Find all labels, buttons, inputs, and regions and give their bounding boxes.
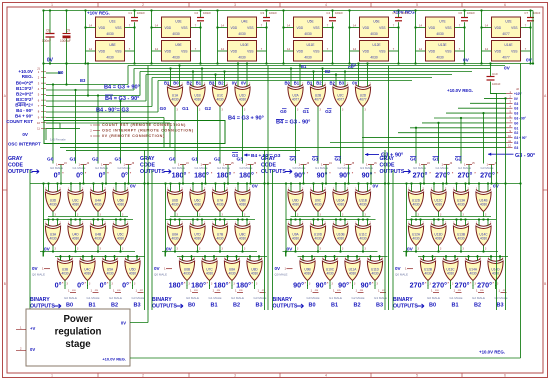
svg-text:0°: 0° bbox=[100, 281, 107, 290]
svg-text:4030: 4030 bbox=[349, 272, 356, 276]
svg-text:10: 10 bbox=[508, 134, 511, 138]
svg-text:14: 14 bbox=[419, 47, 422, 51]
svg-text:*: * bbox=[429, 172, 431, 176]
svg-text:4030: 4030 bbox=[94, 203, 101, 207]
svg-text:3: 3 bbox=[199, 249, 201, 251]
svg-text:4030: 4030 bbox=[370, 32, 378, 36]
svg-text:3: 3 bbox=[365, 110, 367, 112]
svg-text:Q0 MALE: Q0 MALE bbox=[32, 273, 45, 277]
svg-text:3: 3 bbox=[354, 284, 356, 286]
svg-text:VSS: VSS bbox=[379, 26, 385, 30]
svg-text:J5: J5 bbox=[472, 162, 475, 165]
svg-text:1: 1 bbox=[38, 70, 40, 74]
svg-text:5: 5 bbox=[38, 93, 40, 97]
svg-text:+10V REG.: +10V REG. bbox=[393, 10, 416, 15]
svg-text:3: 3 bbox=[222, 110, 224, 112]
svg-text:14: 14 bbox=[353, 23, 356, 27]
svg-text:U12E: U12E bbox=[372, 43, 381, 47]
svg-text:VDD: VDD bbox=[495, 26, 502, 30]
svg-text:U13E: U13E bbox=[438, 43, 447, 47]
svg-text:2: 2 bbox=[490, 189, 492, 191]
svg-text:*: * bbox=[85, 282, 87, 286]
svg-text:VDD: VDD bbox=[231, 50, 238, 54]
svg-text:0°: 0° bbox=[99, 171, 106, 180]
svg-text:G0 MALE: G0 MALE bbox=[186, 296, 199, 300]
svg-text:*: * bbox=[85, 172, 87, 176]
svg-text:3: 3 bbox=[177, 110, 179, 112]
svg-text:G0: G0 bbox=[290, 157, 297, 163]
svg-text:2: 2 bbox=[216, 258, 218, 260]
svg-text:VSS: VSS bbox=[115, 50, 121, 54]
svg-text:2: 2 bbox=[502, 258, 504, 260]
svg-text:1: 1 bbox=[51, 374, 53, 378]
svg-text:G3: G3 bbox=[514, 141, 518, 145]
svg-text:2: 2 bbox=[325, 84, 327, 86]
svg-text:J3: J3 bbox=[186, 162, 189, 165]
svg-text:2: 2 bbox=[468, 189, 470, 191]
svg-text:2: 2 bbox=[227, 84, 229, 86]
svg-text:2: 2 bbox=[249, 84, 251, 86]
svg-text:4030: 4030 bbox=[61, 272, 68, 276]
svg-text:VDD: VDD bbox=[99, 26, 106, 30]
svg-text:U8E: U8E bbox=[109, 43, 116, 47]
svg-text:*: * bbox=[130, 282, 132, 286]
svg-text:3: 3 bbox=[497, 284, 499, 286]
svg-text:B0: B0 bbox=[173, 80, 179, 85]
svg-text:J25: J25 bbox=[217, 290, 221, 292]
svg-text:4030: 4030 bbox=[106, 272, 113, 276]
svg-text:+10.0V REG.: +10.0V REG. bbox=[479, 350, 505, 355]
svg-text:0V: 0V bbox=[351, 63, 356, 68]
svg-text:B0: B0 bbox=[58, 70, 64, 75]
svg-text:OUTPUTS: OUTPUTS bbox=[273, 304, 298, 310]
svg-text:3: 3 bbox=[122, 249, 124, 251]
svg-text:B3: B3 bbox=[133, 303, 140, 309]
svg-text:3: 3 bbox=[100, 249, 102, 251]
svg-text:J24: J24 bbox=[315, 290, 319, 292]
svg-text:U1E: U1E bbox=[109, 20, 116, 24]
svg-text:G1: G1 bbox=[182, 106, 189, 112]
svg-text:4: 4 bbox=[38, 87, 40, 91]
svg-text:3: 3 bbox=[309, 284, 311, 286]
svg-text:*: * bbox=[452, 172, 454, 176]
svg-text:U11E: U11E bbox=[306, 43, 315, 47]
svg-text:4030: 4030 bbox=[94, 237, 101, 241]
svg-text:4030: 4030 bbox=[194, 203, 201, 207]
svg-text:2: 2 bbox=[117, 258, 119, 260]
svg-text:0V: 0V bbox=[121, 321, 126, 326]
svg-text:B4 = G3 - 90°: B4 = G3 - 90° bbox=[105, 96, 139, 102]
svg-text:4030: 4030 bbox=[239, 237, 246, 241]
svg-text:14: 14 bbox=[155, 47, 158, 51]
svg-text:14: 14 bbox=[485, 23, 488, 27]
svg-text:2: 2 bbox=[142, 374, 144, 378]
svg-text:7: 7 bbox=[261, 47, 263, 51]
svg-text:180°: 180° bbox=[239, 171, 254, 180]
svg-text:3: 3 bbox=[234, 3, 236, 7]
svg-text:4030: 4030 bbox=[304, 272, 311, 276]
svg-text:C9: C9 bbox=[66, 29, 70, 33]
svg-text:VSS: VSS bbox=[445, 26, 451, 30]
svg-text:G2 MALE: G2 MALE bbox=[472, 296, 485, 300]
svg-text:180°: 180° bbox=[217, 171, 232, 180]
svg-text:4030: 4030 bbox=[314, 203, 321, 207]
svg-text:4030: 4030 bbox=[469, 272, 476, 276]
svg-text:CODE: CODE bbox=[261, 163, 277, 169]
svg-text:4030: 4030 bbox=[424, 272, 431, 276]
svg-text:BINARY: BINARY bbox=[152, 297, 172, 303]
svg-text:*: * bbox=[350, 282, 352, 286]
svg-text:*: * bbox=[211, 172, 213, 176]
svg-text:CODE: CODE bbox=[380, 163, 396, 169]
svg-text:U14E: U14E bbox=[504, 43, 513, 47]
svg-text:14: 14 bbox=[221, 23, 224, 27]
svg-text:2: 2 bbox=[227, 223, 229, 225]
svg-text:VSS: VSS bbox=[511, 26, 517, 30]
svg-text:0V: 0V bbox=[352, 80, 357, 85]
svg-text:4030: 4030 bbox=[435, 237, 442, 241]
svg-text:stage: stage bbox=[65, 339, 91, 350]
svg-text:4077: 4077 bbox=[337, 98, 344, 102]
svg-text:2: 2 bbox=[60, 189, 62, 191]
svg-text:G2 MALE: G2 MALE bbox=[231, 296, 244, 300]
svg-text:3: 3 bbox=[297, 249, 299, 251]
svg-text:3: 3 bbox=[90, 134, 92, 138]
svg-text:1: 1 bbox=[405, 267, 407, 271]
svg-text:0V: 0V bbox=[514, 97, 519, 101]
svg-text:B0: B0 bbox=[308, 303, 315, 309]
svg-text:2: 2 bbox=[337, 258, 339, 260]
svg-text:G3: G3 bbox=[514, 102, 518, 106]
svg-text:B: B bbox=[544, 282, 546, 286]
svg-text:J4: J4 bbox=[209, 162, 212, 165]
svg-text:B1: B1 bbox=[164, 80, 170, 85]
svg-text:1: 1 bbox=[311, 289, 313, 293]
svg-text:4030: 4030 bbox=[457, 203, 464, 207]
svg-text:0V: 0V bbox=[241, 80, 246, 85]
svg-text:VSS: VSS bbox=[181, 26, 187, 30]
svg-text:Q0 MALE: Q0 MALE bbox=[154, 273, 167, 277]
svg-text:B1=0*2¹: B1=0*2¹ bbox=[16, 86, 33, 91]
svg-text:7: 7 bbox=[525, 47, 527, 51]
svg-text:G1 MALE: G1 MALE bbox=[209, 296, 222, 300]
svg-text:J25: J25 bbox=[95, 290, 99, 292]
svg-text:1: 1 bbox=[285, 267, 287, 271]
svg-text:90°: 90° bbox=[338, 281, 349, 290]
svg-text:G3 - 90°: G3 - 90° bbox=[515, 153, 535, 159]
svg-text:4030: 4030 bbox=[117, 237, 124, 241]
svg-text:VSS: VSS bbox=[247, 50, 253, 54]
svg-text:0V: 0V bbox=[44, 247, 51, 253]
svg-text:4030: 4030 bbox=[480, 203, 487, 207]
svg-text:3: 3 bbox=[67, 284, 69, 286]
svg-text:C6: C6 bbox=[458, 11, 462, 15]
svg-text:G2: G2 bbox=[205, 106, 212, 112]
svg-text:J24: J24 bbox=[72, 290, 76, 292]
svg-text:0V: 0V bbox=[22, 132, 29, 137]
svg-text:4077: 4077 bbox=[502, 32, 510, 36]
svg-text:0V: 0V bbox=[395, 266, 402, 271]
svg-text:G2: G2 bbox=[335, 157, 342, 163]
svg-text:1: 1 bbox=[333, 289, 335, 293]
svg-text:0°: 0° bbox=[122, 281, 129, 290]
svg-text:VDD: VDD bbox=[429, 50, 436, 54]
svg-text:1: 1 bbox=[90, 123, 92, 127]
svg-text:2: 2 bbox=[239, 258, 241, 260]
svg-text:4030: 4030 bbox=[370, 56, 378, 60]
svg-text:2: 2 bbox=[423, 223, 425, 225]
svg-text:7: 7 bbox=[38, 104, 40, 108]
svg-text:1: 1 bbox=[51, 3, 53, 7]
svg-text:U3E: U3E bbox=[175, 20, 182, 24]
svg-text:C7: C7 bbox=[524, 11, 528, 15]
svg-text:G2 MALE: G2 MALE bbox=[109, 296, 122, 300]
svg-text:G3: G3 bbox=[514, 146, 518, 150]
svg-text:4030: 4030 bbox=[304, 56, 312, 60]
svg-text:0°: 0° bbox=[54, 171, 61, 180]
svg-text:G1: G1 bbox=[312, 157, 319, 163]
svg-text:VDD: VDD bbox=[363, 50, 370, 54]
svg-text:1x5 Female: 1x5 Female bbox=[50, 138, 66, 142]
svg-text:10: 10 bbox=[37, 121, 40, 125]
svg-text:4077: 4077 bbox=[314, 98, 321, 102]
svg-text:J4: J4 bbox=[87, 162, 90, 165]
svg-text:B0: B0 bbox=[66, 303, 73, 309]
svg-text:0°: 0° bbox=[76, 171, 83, 180]
svg-text:3: 3 bbox=[342, 249, 344, 251]
svg-text:4030: 4030 bbox=[216, 237, 223, 241]
svg-text:0V: 0V bbox=[373, 184, 380, 190]
svg-text:G2: G2 bbox=[514, 131, 518, 135]
svg-text:J5: J5 bbox=[231, 162, 234, 165]
svg-text:G1: G1 bbox=[433, 157, 440, 163]
svg-text:3: 3 bbox=[332, 284, 334, 286]
svg-text:3: 3 bbox=[320, 249, 322, 251]
svg-text:2: 2 bbox=[72, 258, 74, 260]
svg-text:B2: B2 bbox=[474, 303, 481, 309]
svg-text:0V: 0V bbox=[526, 58, 533, 64]
svg-text:7: 7 bbox=[195, 23, 197, 27]
svg-text:OUTPUTS: OUTPUTS bbox=[152, 304, 177, 310]
svg-text:Power: Power bbox=[63, 314, 92, 325]
svg-text:2: 2 bbox=[127, 189, 129, 191]
svg-text:B0: B0 bbox=[429, 303, 436, 309]
svg-text:*: * bbox=[307, 172, 309, 176]
svg-text:4077: 4077 bbox=[502, 56, 510, 60]
svg-text:100nF: 100nF bbox=[203, 11, 211, 15]
svg-text:14: 14 bbox=[221, 47, 224, 51]
svg-text:*: * bbox=[425, 282, 427, 286]
svg-text:G2: G2 bbox=[325, 109, 332, 115]
svg-text:BINARY: BINARY bbox=[30, 297, 50, 303]
svg-text:14: 14 bbox=[89, 23, 92, 27]
svg-text:100nF: 100nF bbox=[137, 11, 145, 15]
svg-text:270°: 270° bbox=[455, 281, 470, 290]
svg-text:2: 2 bbox=[302, 223, 304, 225]
svg-text:2: 2 bbox=[38, 76, 40, 80]
svg-text:2: 2 bbox=[139, 258, 141, 260]
svg-text:U2E: U2E bbox=[505, 20, 512, 24]
svg-text:4030: 4030 bbox=[72, 237, 79, 241]
svg-text:B1: B1 bbox=[451, 303, 458, 309]
svg-text:270°: 270° bbox=[410, 281, 425, 290]
svg-text:C4: C4 bbox=[326, 11, 330, 15]
svg-text:COUNT RST (REMOTE CONNECTION): COUNT RST (REMOTE CONNECTION) bbox=[102, 123, 186, 127]
svg-text:B: B bbox=[4, 282, 6, 286]
svg-text:4030: 4030 bbox=[84, 272, 91, 276]
svg-text:3: 3 bbox=[320, 110, 322, 112]
svg-text:J25: J25 bbox=[337, 290, 341, 292]
svg-text:9: 9 bbox=[38, 115, 40, 119]
svg-text:2: 2 bbox=[20, 347, 22, 351]
svg-text:100nF: 100nF bbox=[492, 82, 501, 86]
svg-text:G1: G1 bbox=[303, 109, 310, 115]
svg-text:14: 14 bbox=[419, 23, 422, 27]
svg-text:*: * bbox=[329, 172, 331, 176]
svg-text:G2: G2 bbox=[455, 157, 462, 163]
svg-text:4030: 4030 bbox=[251, 272, 258, 276]
svg-text:G0: G0 bbox=[514, 121, 518, 125]
svg-text:J27: J27 bbox=[382, 290, 386, 292]
svg-text:B2: B2 bbox=[316, 80, 322, 85]
svg-text:G1: G1 bbox=[514, 126, 518, 130]
svg-text:4030: 4030 bbox=[337, 203, 344, 207]
svg-text:G0: G0 bbox=[280, 109, 287, 115]
svg-text:B0: B0 bbox=[188, 303, 195, 309]
svg-text:*: * bbox=[184, 282, 186, 286]
svg-text:14: 14 bbox=[353, 47, 356, 51]
svg-text:7: 7 bbox=[327, 47, 329, 51]
svg-text:VDD: VDD bbox=[297, 50, 304, 54]
svg-text:G3: G3 bbox=[514, 112, 518, 116]
svg-text:5: 5 bbox=[416, 3, 418, 7]
svg-text:3: 3 bbox=[342, 110, 344, 112]
svg-text:*: * bbox=[372, 282, 374, 286]
svg-text:90°: 90° bbox=[316, 281, 327, 290]
svg-text:1: 1 bbox=[20, 326, 22, 330]
svg-text:4030: 4030 bbox=[239, 98, 246, 102]
svg-text:2: 2 bbox=[261, 258, 263, 260]
svg-text:B2: B2 bbox=[218, 80, 224, 85]
svg-text:3: 3 bbox=[297, 110, 299, 112]
svg-text:2: 2 bbox=[82, 223, 84, 225]
svg-text:B1: B1 bbox=[307, 80, 313, 85]
svg-text:4030: 4030 bbox=[435, 203, 442, 207]
svg-text:OUTPUTS: OUTPUTS bbox=[8, 169, 33, 175]
svg-text:2: 2 bbox=[302, 84, 304, 86]
svg-text:270°: 270° bbox=[435, 171, 450, 180]
svg-text:VDD: VDD bbox=[495, 50, 502, 54]
svg-text:2: 2 bbox=[347, 84, 349, 86]
svg-text:J24: J24 bbox=[194, 290, 198, 292]
svg-text:GRAY: GRAY bbox=[380, 156, 395, 162]
svg-text:4030: 4030 bbox=[314, 237, 321, 241]
svg-text:*: * bbox=[470, 282, 472, 286]
svg-text:3: 3 bbox=[199, 110, 201, 112]
svg-text:G1 MALE: G1 MALE bbox=[450, 296, 463, 300]
svg-text:*: * bbox=[256, 172, 258, 176]
svg-text:1: 1 bbox=[136, 289, 138, 293]
svg-text:4030: 4030 bbox=[106, 56, 114, 60]
svg-text:BINARY: BINARY bbox=[273, 297, 293, 303]
svg-text:1: 1 bbox=[113, 289, 115, 293]
svg-text:7: 7 bbox=[261, 23, 263, 27]
svg-text:100nF: 100nF bbox=[269, 11, 277, 15]
svg-text:2: 2 bbox=[325, 189, 327, 191]
svg-text:*: * bbox=[188, 172, 190, 176]
svg-text:4030: 4030 bbox=[238, 32, 246, 36]
svg-text:4030: 4030 bbox=[171, 98, 178, 102]
svg-text:4030: 4030 bbox=[359, 237, 366, 241]
svg-text:1: 1 bbox=[42, 267, 44, 271]
svg-text:G0 MALE: G0 MALE bbox=[307, 296, 320, 300]
svg-text:4030: 4030 bbox=[106, 32, 114, 36]
svg-text:VDD: VDD bbox=[429, 26, 436, 30]
svg-text:3: 3 bbox=[134, 284, 136, 286]
svg-text:2: 2 bbox=[302, 189, 304, 191]
svg-text:7: 7 bbox=[129, 23, 131, 27]
svg-text:14: 14 bbox=[89, 47, 92, 51]
svg-text:REG.: REG. bbox=[22, 74, 33, 79]
svg-text:*: * bbox=[474, 172, 476, 176]
svg-text:6: 6 bbox=[504, 374, 506, 378]
svg-text:3: 3 bbox=[244, 110, 246, 112]
svg-text:2: 2 bbox=[249, 223, 251, 225]
svg-text:4030: 4030 bbox=[436, 32, 444, 36]
svg-text:3: 3 bbox=[485, 249, 487, 251]
svg-text:2: 2 bbox=[370, 223, 372, 225]
svg-text:OUTPUTS: OUTPUTS bbox=[380, 169, 405, 175]
svg-text:0V: 0V bbox=[463, 58, 470, 64]
svg-text:2: 2 bbox=[370, 84, 372, 86]
svg-text:4030: 4030 bbox=[337, 237, 344, 241]
svg-text:4030: 4030 bbox=[292, 237, 299, 241]
svg-text:7: 7 bbox=[327, 23, 329, 27]
svg-text:4030: 4030 bbox=[359, 203, 366, 207]
svg-text:0V: 0V bbox=[287, 247, 294, 253]
svg-text:*: * bbox=[327, 282, 329, 286]
svg-text:1000uF: 1000uF bbox=[60, 39, 71, 43]
svg-text:7: 7 bbox=[195, 47, 197, 51]
svg-text:J26: J26 bbox=[117, 290, 121, 292]
svg-text:+10.0V REG.: +10.0V REG. bbox=[447, 88, 473, 93]
svg-text:VDD: VDD bbox=[165, 26, 172, 30]
svg-text:3: 3 bbox=[89, 284, 91, 286]
svg-text:2: 2 bbox=[204, 223, 206, 225]
svg-text:C10: C10 bbox=[492, 72, 498, 76]
svg-text:B2: B2 bbox=[233, 303, 240, 309]
svg-text:0°: 0° bbox=[77, 281, 84, 290]
svg-text:1: 1 bbox=[91, 289, 93, 293]
svg-text:100nF: 100nF bbox=[533, 11, 541, 15]
svg-text:6: 6 bbox=[38, 98, 40, 102]
svg-text:VSS: VSS bbox=[379, 50, 385, 54]
svg-text:A: A bbox=[4, 94, 7, 98]
svg-text:2: 2 bbox=[359, 258, 361, 260]
svg-text:0V: 0V bbox=[252, 184, 259, 190]
svg-text:4077: 4077 bbox=[292, 98, 299, 102]
svg-text:4030: 4030 bbox=[72, 203, 79, 207]
svg-text:2: 2 bbox=[347, 189, 349, 191]
svg-text:VDD: VDD bbox=[297, 26, 304, 30]
svg-text:3: 3 bbox=[377, 284, 379, 286]
svg-text:14: 14 bbox=[287, 23, 290, 27]
svg-text:2: 2 bbox=[347, 223, 349, 225]
svg-text:OSC INTERRPT: OSC INTERRPT bbox=[8, 142, 41, 147]
svg-text:4030: 4030 bbox=[172, 32, 180, 36]
svg-text:G2: G2 bbox=[214, 157, 221, 163]
svg-text:3: 3 bbox=[112, 284, 114, 286]
